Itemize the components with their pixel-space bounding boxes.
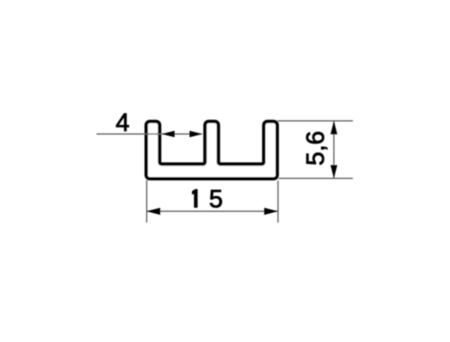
extension line top of dim 5,6 bbox=[278, 120, 353, 122]
svg-text:5: 5 bbox=[209, 186, 223, 214]
dim line 15 bbox=[147, 210, 278, 212]
extension line right of dim 15 bbox=[277, 181, 279, 223]
extension line left of dim 15 bbox=[146, 180, 148, 223]
arrow bottom of dim 5,6 bbox=[331, 165, 338, 178]
arrow left of dim 15 bbox=[146, 208, 160, 215]
arrow right of dim 4 bbox=[190, 131, 203, 138]
extension line bottom of dim 5,6 bbox=[279, 177, 353, 179]
arrow right of dim 15 bbox=[264, 208, 278, 215]
arrow top of dim 5,6 bbox=[331, 121, 338, 134]
svg-text:4: 4 bbox=[116, 109, 130, 137]
dim leader line for "4" bbox=[97, 133, 203, 135]
dim line 5,6 bbox=[333, 121, 335, 178]
label 15 bbox=[192, 189, 197, 207]
profile outline (U-channel with middle rib) bbox=[146, 121, 277, 178]
arrow left of dim 4 bbox=[162, 131, 175, 138]
svg-text:5,6: 5,6 bbox=[302, 131, 330, 166]
